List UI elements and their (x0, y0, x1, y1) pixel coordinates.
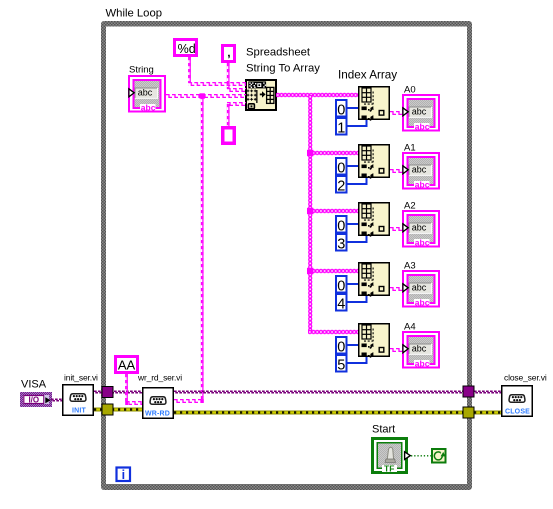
constant comma 2 (221, 126, 236, 145)
constant 1 row 0 (336, 118, 347, 135)
wire long vertical string to wr_rd (201, 96, 204, 403)
svg-text:0: 0 (337, 218, 345, 234)
wire VISA to init (51, 399, 62, 402)
svg-text:INIT: INIT (72, 408, 87, 415)
svg-text:A3: A3 (404, 261, 416, 272)
constant 0 row 0 (336, 100, 347, 117)
wire error wr_rd to close (174, 411, 501, 415)
wire %d to function (188, 57, 191, 83)
constant 3 row 2 (336, 234, 347, 251)
svg-text:Start: Start (372, 424, 395, 436)
svg-text:5: 5 (337, 357, 345, 373)
indicator A4 (402, 331, 440, 369)
function Index Array row 0 (359, 87, 390, 121)
tunnel visa right (463, 386, 474, 397)
function Index Array row 1 (359, 145, 390, 179)
wire visa wr_rd to close (174, 391, 501, 394)
constant 2 row 1 (336, 176, 347, 193)
svg-text:String: String (129, 65, 154, 76)
wire output row 4 (390, 348, 402, 352)
svg-text:init_ser.vi: init_ser.vi (64, 373, 98, 383)
constant AA (114, 355, 139, 374)
svg-text:wr_rd_ser.vi: wr_rd_ser.vi (137, 373, 182, 383)
svg-text:TF: TF (384, 463, 394, 473)
svg-text:String To Array: String To Array (246, 63, 320, 75)
wire array trunk vertical (308, 95, 312, 332)
svg-text:I/O: I/O (28, 395, 39, 404)
svg-text:A4: A4 (404, 322, 416, 333)
iteration terminal i (117, 468, 131, 482)
junction on string wire (200, 93, 205, 98)
svg-text:close_ser.vi: close_ser.vi (504, 373, 547, 383)
constant 5 row 4 (336, 355, 347, 372)
junction trunk row 3 (307, 268, 313, 274)
indicator A1 (402, 152, 440, 190)
svg-text:A2: A2 (404, 201, 416, 212)
wire array branch row 4 (308, 330, 358, 334)
svg-text:Index Array: Index Array (338, 69, 397, 82)
wire output row 0 (390, 111, 402, 115)
wire output row 2 (390, 227, 402, 231)
svg-text:2: 2 (337, 178, 345, 194)
wire index1 row 4 (347, 357, 367, 363)
wire index0 row 3 (347, 283, 358, 285)
svg-text:%d: %d (178, 42, 196, 56)
wire index0 row 0 (347, 107, 358, 109)
function Spreadsheet String To Array (246, 80, 276, 110)
wire index0 row 1 (347, 165, 358, 167)
indicator A2 (402, 210, 440, 248)
wire string indicator to function (166, 94, 246, 98)
svg-text:VISA: VISA (21, 379, 47, 391)
svg-text:A0: A0 (404, 85, 416, 96)
svg-text:0: 0 (337, 278, 345, 294)
tunnel visa left (102, 387, 113, 398)
constant %d (173, 38, 198, 57)
svg-text:CLOSE: CLOSE (505, 409, 530, 416)
wire index0 row 2 (347, 223, 358, 225)
constant comma 1 (221, 44, 236, 63)
wire index1 row 3 (347, 296, 367, 302)
wire index1 row 2 (347, 236, 367, 242)
svg-text:While Loop: While Loop (106, 8, 163, 20)
wire output row 3 (390, 287, 402, 291)
while loop border (101, 21, 472, 490)
svg-text:0: 0 (337, 102, 345, 118)
svg-text:WR-RD: WR-RD (145, 411, 170, 418)
svg-text:3: 3 (337, 236, 345, 252)
wire AA to wr_rd (125, 374, 128, 403)
wire wr_rd string out corner (174, 399, 203, 403)
constant 4 row 3 (336, 294, 347, 311)
tunnel error left (102, 404, 113, 415)
wire array branch row 2 (308, 209, 358, 213)
function Index Array row 3 (359, 263, 390, 297)
indicator String (128, 75, 166, 113)
wire boolean Start to condition (411, 455, 431, 457)
wire index0 row 4 (347, 344, 358, 346)
control VISA resource (20, 392, 52, 407)
subvi init_ser (63, 385, 94, 416)
indicator A0 (402, 94, 440, 132)
svg-text:A1: A1 (404, 143, 416, 154)
constant 0 row 2 (336, 216, 347, 233)
wire array out of function (276, 93, 358, 97)
svg-text:0: 0 (337, 339, 345, 355)
control Start boolean (371, 437, 410, 474)
svg-text:1: 1 (337, 120, 345, 136)
function Index Array row 4 (359, 324, 390, 358)
function Index Array row 2 (359, 203, 390, 237)
constant 0 row 3 (336, 276, 347, 293)
junction trunk row 2 (307, 208, 313, 214)
svg-text:,: , (227, 46, 230, 60)
tunnel error right (463, 407, 474, 418)
wire array branch row 3 (308, 269, 358, 273)
junction trunk row 1 (307, 150, 313, 156)
svg-text:i: i (122, 468, 125, 482)
wire comma1 to function (227, 63, 230, 89)
indicator A3 (402, 270, 440, 308)
constant 0 row 1 (336, 158, 347, 175)
subvi close_ser (502, 386, 533, 417)
wire error init to wr_rd (94, 408, 142, 412)
wire index1 row 1 (347, 178, 367, 184)
svg-text:Spreadsheet: Spreadsheet (246, 47, 311, 59)
svg-text:0: 0 (337, 160, 345, 176)
wire comma2 to function (227, 104, 230, 126)
svg-text:4: 4 (337, 296, 345, 312)
wire array branch row 1 (308, 151, 358, 155)
subvi wr_rd_ser (143, 388, 174, 419)
wire visa init to wr_rd (94, 391, 142, 394)
constant 0 row 4 (336, 337, 347, 354)
loop condition terminal (432, 449, 446, 463)
svg-text:AA: AA (118, 358, 136, 373)
wire output row 1 (390, 169, 402, 173)
wire index1 row 0 (347, 120, 367, 126)
